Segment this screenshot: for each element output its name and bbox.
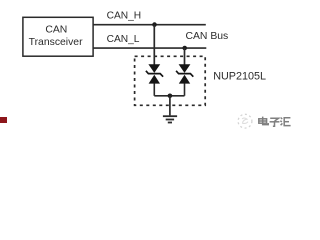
wire left branch vertical bbox=[153, 25, 155, 65]
wire bottom connector bbox=[154, 95, 184, 97]
svg-text:CAN Bus: CAN Bus bbox=[186, 31, 229, 42]
ground bbox=[163, 116, 177, 122]
wire CAN_H horizontal bbox=[94, 24, 206, 26]
TVS diode D2 (right bidirectional zener pair) bbox=[176, 64, 193, 83]
junction dot on CAN_L bbox=[182, 46, 187, 51]
red corner mark bbox=[0, 117, 7, 123]
电 bbox=[263, 117, 269, 125]
junction dot on CAN_H bbox=[152, 22, 157, 27]
svg-text:Transceiver: Transceiver bbox=[29, 37, 83, 48]
汇 bbox=[281, 118, 282, 119]
junction dot bottom bbox=[168, 94, 173, 99]
watermark logo circle bbox=[238, 114, 252, 128]
dashed box NUP2105L outline bbox=[135, 56, 206, 105]
wire CAN_L horizontal bbox=[94, 47, 207, 49]
watermark text 电子汇 bbox=[259, 117, 291, 127]
wire right branch vertical bbox=[184, 48, 186, 65]
子 bbox=[270, 118, 278, 121]
wire ground stem bbox=[169, 96, 171, 116]
wire below D1 bbox=[153, 83, 155, 95]
wire below D2 bbox=[184, 83, 186, 95]
TVS diode D1 (left bidirectional zener pair) bbox=[146, 64, 163, 83]
svg-text:NUP2105L: NUP2105L bbox=[213, 70, 266, 82]
svg-text:CAN_H: CAN_H bbox=[107, 11, 142, 22]
CAN Transceiver box U1 bbox=[23, 17, 93, 56]
svg-text:CAN: CAN bbox=[45, 24, 67, 35]
svg-text:CAN_L: CAN_L bbox=[107, 34, 140, 45]
